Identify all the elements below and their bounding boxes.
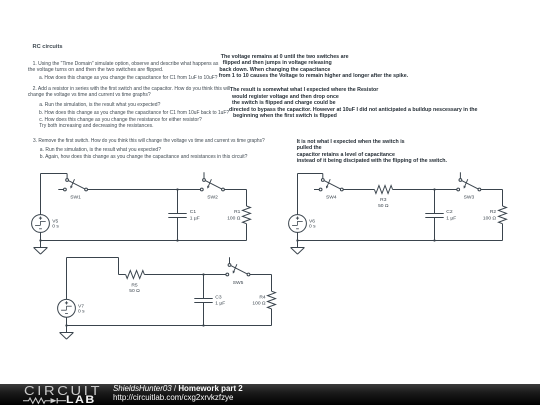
svg-text:SW3: SW3 (464, 195, 475, 201)
svg-text:V5: V5 (52, 218, 58, 224)
svg-text:R3: R3 (380, 197, 387, 203)
svg-text:SW5: SW5 (233, 280, 244, 286)
svg-text:1 µF: 1 µF (215, 301, 225, 307)
svg-text:R4: R4 (259, 294, 266, 300)
svg-text:100 Ω: 100 Ω (227, 216, 241, 222)
svg-text:C3: C3 (215, 294, 222, 300)
svg-text:1 µF: 1 µF (446, 216, 456, 222)
svg-text:0 s: 0 s (52, 224, 59, 230)
svg-text:C2: C2 (446, 209, 453, 215)
svg-text:R2: R2 (490, 209, 497, 215)
svg-text:R1: R1 (234, 209, 241, 215)
svg-text:R5: R5 (131, 282, 138, 288)
svg-text:SW4: SW4 (326, 195, 337, 201)
svg-text:C1: C1 (190, 209, 197, 215)
svg-text:SW2: SW2 (207, 195, 218, 201)
svg-text:0 s: 0 s (309, 224, 316, 230)
svg-text:50 Ω: 50 Ω (378, 203, 389, 209)
svg-text:100 Ω: 100 Ω (252, 301, 266, 307)
svg-text:0 s: 0 s (78, 309, 85, 315)
svg-text:SW1: SW1 (70, 195, 81, 201)
svg-text:V7: V7 (78, 303, 84, 309)
svg-text:V6: V6 (309, 218, 315, 224)
svg-text:100 Ω: 100 Ω (483, 216, 497, 222)
svg-text:1 µF: 1 µF (190, 216, 200, 222)
svg-text:50 Ω: 50 Ω (129, 288, 140, 294)
